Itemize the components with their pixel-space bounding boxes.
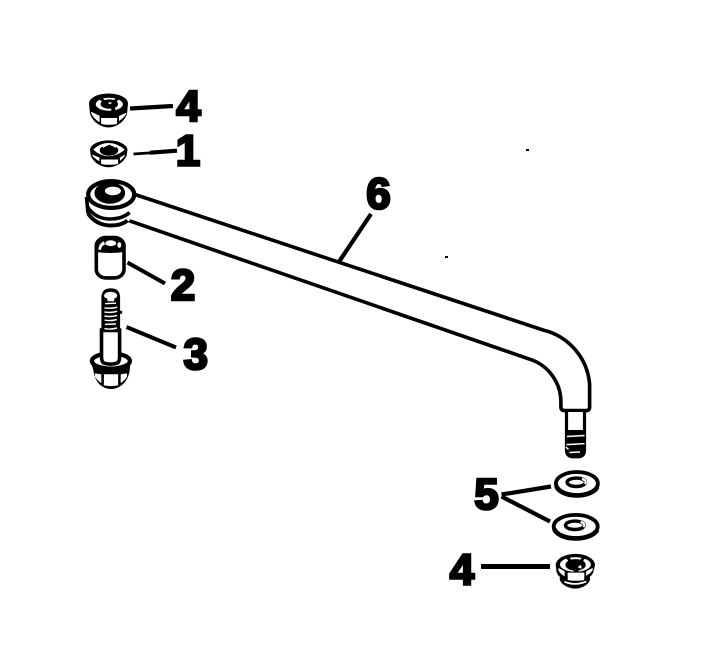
- svg-text:5: 5: [474, 470, 498, 519]
- svg-text:4: 4: [176, 82, 201, 131]
- svg-text:4: 4: [450, 545, 475, 594]
- svg-text:1: 1: [176, 127, 200, 176]
- svg-text:3: 3: [183, 330, 207, 379]
- svg-text:2: 2: [171, 261, 195, 310]
- svg-text:6: 6: [366, 170, 390, 219]
